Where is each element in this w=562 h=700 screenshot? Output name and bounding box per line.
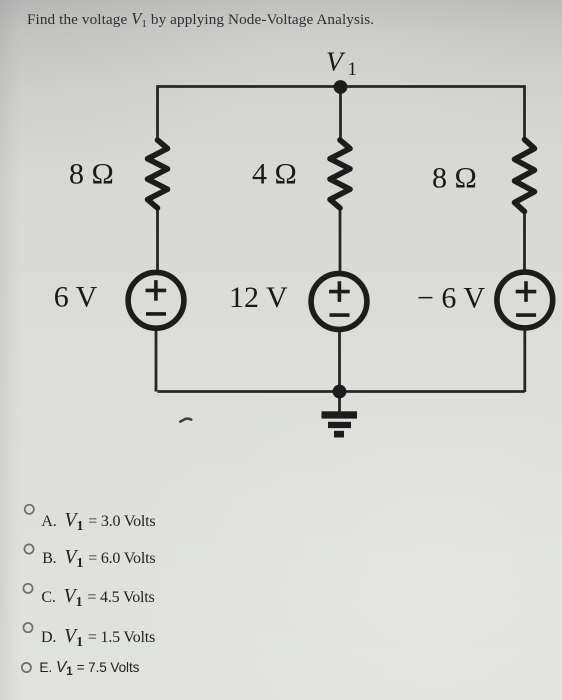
svg-text:V: V [326, 46, 346, 77]
svg-text:1: 1 [348, 59, 358, 80]
svg-text:12 V: 12 V [229, 281, 288, 314]
svg-text:8 Ω: 8 Ω [69, 158, 114, 191]
svg-text:− 6 V: − 6 V [417, 282, 485, 315]
svg-text:4 Ω: 4 Ω [252, 158, 297, 191]
svg-text:6 V: 6 V [54, 281, 98, 314]
svg-text:8 Ω: 8 Ω [432, 162, 477, 195]
